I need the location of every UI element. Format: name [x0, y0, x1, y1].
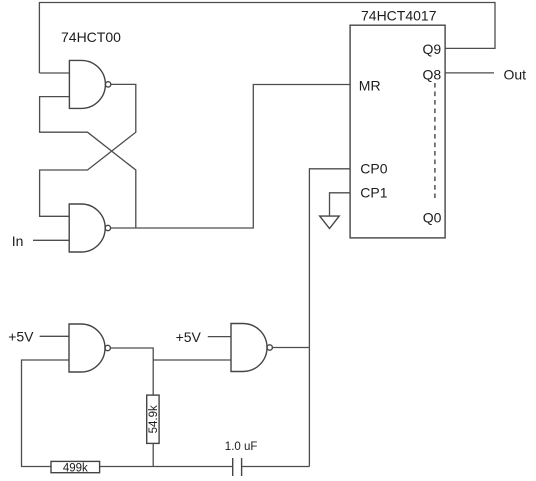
wire R2 bottom: [152, 443, 154, 466]
svg-text:Q0: Q0: [423, 210, 442, 226]
svg-text:74HCT00: 74HCT00: [61, 29, 121, 45]
svg-text:54.9k: 54.9k: [148, 405, 160, 433]
svg-text:Q9: Q9: [423, 41, 442, 57]
IC U3 74HCT4017 body: [350, 25, 445, 238]
wire In to U1B input2: [33, 239, 69, 241]
wire feedback left to U2A input2: [22, 360, 70, 467]
svg-text:499k: 499k: [63, 462, 88, 474]
resistor 499k body: [51, 461, 100, 472]
resistor 54.9k body: [147, 395, 159, 443]
dashed line Q8..Q0 inside U3: [434, 83, 436, 198]
wire U1A input2 from U1B output (cross): [40, 97, 136, 228]
wire capacitor to oscillator node: [242, 466, 310, 468]
wire Q8 to Out: [445, 72, 494, 74]
wire top feedback (Q9 to U1A input): [39, 3, 495, 74]
wire U2B output to CP0 line: [272, 347, 309, 349]
svg-text:MR: MR: [359, 78, 381, 94]
svg-text:CP0: CP0: [360, 160, 387, 176]
NAND gate U1B (74HCT00): [69, 204, 105, 252]
wire U2A output to U2B input2 and R2: [110, 348, 153, 395]
svg-text:1.0 uF: 1.0 uF: [225, 441, 258, 453]
NAND gate U2A (oscillator): [69, 324, 105, 372]
wire CP0 to oscillator node: [309, 169, 350, 467]
wire CP1 to ground: [330, 193, 351, 216]
wire +5V to U2B input1: [208, 336, 231, 338]
wire U1B output to MR: [111, 85, 351, 229]
svg-text:+5V: +5V: [176, 329, 202, 345]
NAND gate U1A (74HCT00): [69, 60, 105, 108]
wire junction to U2B input2: [153, 359, 231, 361]
svg-text:Q8: Q8: [423, 67, 442, 83]
wire 499k to capacitor: [100, 466, 233, 468]
NAND gate U2B (oscillator buffer): [231, 324, 267, 372]
wire U1A input1: [39, 72, 69, 74]
svg-text:In: In: [12, 233, 24, 249]
svg-text:+5V: +5V: [8, 329, 34, 345]
wire +5V to U2A input1: [40, 335, 69, 337]
svg-text:CP1: CP1: [360, 185, 387, 201]
svg-text:74HCT4017: 74HCT4017: [361, 7, 437, 23]
ground symbol at CP1: [320, 216, 340, 228]
wire U1A output to cross: [40, 84, 136, 216]
capacitor 1.0 uF plates: [232, 458, 234, 476]
svg-text:Out: Out: [504, 66, 527, 82]
